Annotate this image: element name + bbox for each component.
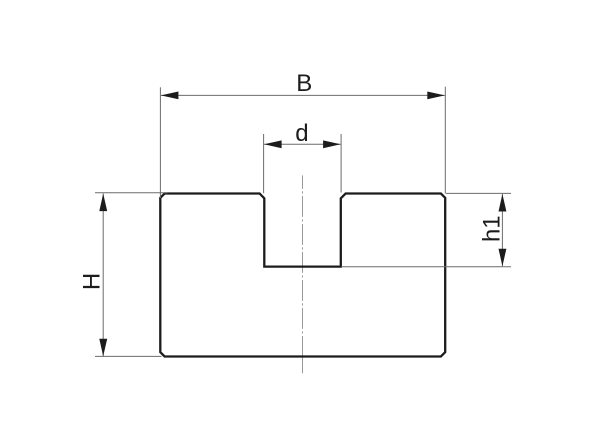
dimension h1 arrowhead top <box>499 194 507 212</box>
dimension h1 extension line bottom <box>341 266 511 268</box>
svg-text:H: H <box>79 273 106 290</box>
dimension H line <box>102 194 104 357</box>
dimension d arrowhead right <box>323 140 341 148</box>
dimension H extension line top <box>95 192 168 194</box>
centerline (vertical dash-dot axis, upper part) <box>302 175 304 356</box>
block profile outline with slot <box>160 194 445 357</box>
dimension B arrowhead right <box>427 92 445 100</box>
svg-text:h1: h1 <box>479 215 506 242</box>
dimension h1 arrowhead bottom <box>499 249 507 267</box>
dimension H arrowhead top <box>99 194 107 212</box>
dimension d line <box>264 143 341 145</box>
dimension B arrowhead left <box>161 92 179 100</box>
dimension B extension line right <box>444 87 446 194</box>
dimension H extension line bottom <box>95 355 162 357</box>
dimension B line <box>161 94 445 96</box>
dimension d extension line left <box>263 134 265 193</box>
dimension B extension line left <box>159 87 161 198</box>
svg-text:B: B <box>296 70 312 97</box>
dimension d arrowhead left <box>264 140 282 148</box>
dimension d extension line right <box>340 134 342 193</box>
centerline (end dash below block) <box>302 357 304 373</box>
svg-text:d: d <box>295 120 308 147</box>
dimension H arrowhead bottom <box>99 339 107 357</box>
dimension h1 line <box>501 194 503 266</box>
dimension h1 extension line top <box>446 192 511 194</box>
